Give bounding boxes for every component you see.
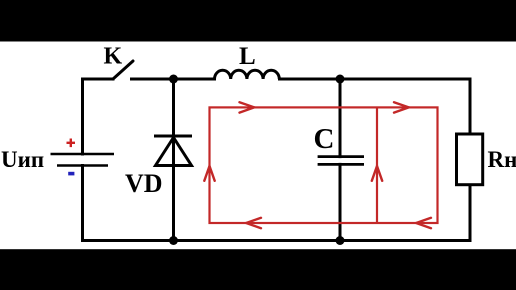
junction node diode top [169, 75, 178, 84]
svg-text:Uип: Uип [1, 147, 44, 172]
red arrow up on left edge [204, 166, 214, 181]
svg-text:VD: VD [125, 169, 163, 198]
svg-text:C: C [314, 123, 335, 155]
svg-text:K: K [104, 44, 123, 70]
junction node diode bottom [169, 236, 178, 245]
wire diode branch vertical [172, 79, 175, 241]
resistor Rн body [457, 134, 483, 185]
inductor L [215, 70, 280, 79]
wire capacitor branch upper [339, 79, 342, 157]
switch K blade [113, 61, 133, 79]
letterbox bottom bar [0, 249, 516, 290]
wire right vertical upper [469, 79, 472, 134]
battery minus sign [68, 172, 74, 176]
wire bottom horizontal [83, 239, 471, 242]
capacitor C plate top [318, 155, 364, 158]
wire left vertical lower (battery to bottom) [81, 166, 84, 241]
battery plus sign [67, 139, 76, 148]
red arrow left on bottom edge left [246, 218, 261, 228]
svg-text:L: L [239, 43, 256, 70]
wire switch to diode node [132, 78, 215, 81]
diode VD cathode bar [154, 135, 192, 138]
wire capacitor branch lower [339, 164, 342, 240]
diode VD triangle [156, 138, 192, 166]
wire top-left horizontal to switch [83, 78, 114, 81]
wire right vertical lower [469, 185, 472, 241]
junction node capacitor top [336, 75, 345, 84]
capacitor C plate bottom [318, 163, 364, 166]
red arrow left on bottom edge right [416, 218, 431, 228]
red arrow right on top edge right [394, 102, 409, 112]
red arrow right on top edge left [240, 102, 255, 112]
battery Uип plate short [57, 164, 108, 167]
red inner branch vertical [376, 107, 378, 223]
red current loop rectangle [210, 107, 438, 223]
svg-text:Rн: Rн [488, 147, 516, 172]
red arrow up on inner branch [372, 166, 382, 181]
junction node capacitor bottom [336, 236, 345, 245]
battery Uип plate long [51, 153, 115, 156]
wire inductor to capacitor node and right corner [280, 78, 471, 81]
wire left vertical upper (battery to top) [81, 79, 84, 154]
letterbox top bar [0, 0, 516, 42]
